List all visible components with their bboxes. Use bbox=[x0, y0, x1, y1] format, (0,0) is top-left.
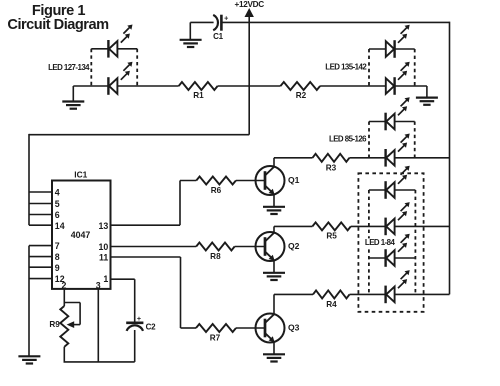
ground below Q3 bbox=[263, 354, 285, 361]
svg-text:LED 1-84: LED 1-84 bbox=[365, 238, 396, 247]
pin 5 bbox=[29, 199, 60, 209]
svg-text:R2: R2 bbox=[296, 91, 307, 100]
capacitor C2 bbox=[126, 314, 143, 362]
svg-text:8: 8 bbox=[55, 252, 60, 262]
LED D1 of group 1-84 bbox=[386, 166, 410, 199]
wire: LED 85-126 top row bbox=[369, 121, 415, 123]
svg-text:IC1: IC1 bbox=[74, 170, 87, 180]
wire: LED 127-134 top row bbox=[91, 48, 137, 50]
LED D3 of group 1-84 bbox=[386, 234, 410, 267]
svg-text:5: 5 bbox=[55, 199, 60, 209]
LED D-top of group 85-126 bbox=[386, 97, 410, 130]
wire: R7 to Q3 base bbox=[236, 327, 265, 329]
title: Figure 1 / Circuit Diagram bbox=[7, 3, 109, 33]
wire: LED 1-84 row 3 bbox=[369, 257, 416, 259]
LED D-top of group 135-142 bbox=[386, 25, 410, 58]
resistor R8 bbox=[196, 243, 234, 251]
wire: LED 135-142 bottom to ground bbox=[395, 85, 427, 87]
svg-text:R7: R7 bbox=[210, 333, 221, 342]
wire: LED 127-134 bottom row to R1 bbox=[73, 85, 178, 87]
pin 6 bbox=[29, 210, 60, 220]
dashed continuation lines group 1-84 bbox=[369, 190, 416, 294]
svg-text:LED 135-142: LED 135-142 bbox=[325, 62, 367, 71]
resistor R5 bbox=[312, 222, 350, 230]
pin 8 bbox=[29, 252, 60, 262]
ground at LED 135-142 bbox=[416, 86, 438, 105]
wire: left bus A (pins 4,5,6,14) bbox=[28, 134, 30, 225]
LED D-bottom of group 127-134 bbox=[108, 62, 132, 95]
pin 2 and stub bbox=[61, 280, 66, 306]
pin 10 and wire to R8 bbox=[99, 242, 197, 252]
LED D-bottom of group 85-126 bbox=[386, 134, 410, 167]
LED group 1-84 label bbox=[363, 238, 396, 247]
resistor R6 bbox=[196, 177, 236, 185]
LED D4 of group 1-84 bbox=[386, 270, 410, 303]
svg-text:1: 1 bbox=[103, 274, 108, 284]
LED D-bottom of group 135-142 bbox=[386, 62, 410, 95]
wire: Q1 collector to R3 bbox=[274, 157, 313, 159]
pin 13 and wire to R6 bbox=[99, 181, 197, 231]
pin 1 and wire to C2 bbox=[103, 274, 134, 323]
svg-text:R1: R1 bbox=[193, 91, 204, 100]
svg-text:3: 3 bbox=[96, 280, 101, 290]
svg-text:+: + bbox=[137, 314, 141, 323]
pin 9 bbox=[29, 263, 60, 273]
wire: right supply rail bbox=[449, 22, 451, 295]
svg-text:Q3: Q3 bbox=[288, 323, 300, 333]
LED D2 of group 1-84 bbox=[386, 202, 410, 235]
svg-text:14: 14 bbox=[55, 221, 65, 231]
svg-text:7: 7 bbox=[55, 241, 60, 251]
dashed continuation lines group 135-142 bbox=[369, 49, 415, 86]
svg-text:R6: R6 bbox=[211, 186, 222, 195]
svg-text:9: 9 bbox=[55, 263, 60, 273]
pin 14 bbox=[29, 221, 65, 231]
svg-text:R8: R8 bbox=[210, 252, 221, 261]
wire: top rail left segment (ground to C1) bbox=[190, 21, 213, 23]
wire: Q2 collector to R5 bbox=[274, 225, 312, 227]
wire: bottom rail bbox=[64, 361, 135, 363]
transistor Q1 bbox=[256, 158, 285, 207]
svg-text:+: + bbox=[224, 13, 228, 22]
resistor R4 bbox=[313, 290, 350, 298]
capacitor C1 bbox=[213, 13, 228, 30]
svg-text:4047: 4047 bbox=[71, 230, 91, 240]
dashed continuation lines group 85-126 bbox=[369, 122, 415, 158]
svg-text:6: 6 bbox=[55, 210, 60, 220]
svg-text:4: 4 bbox=[55, 188, 60, 198]
wire: R9 bottom to rail bbox=[63, 347, 65, 362]
wire: R8 to Q2 base bbox=[235, 246, 265, 248]
wire: left bus B (pins 7,8,9,12 to ground) bbox=[28, 246, 30, 357]
svg-text:2: 2 bbox=[61, 280, 66, 290]
resistor R7 bbox=[196, 324, 236, 332]
wire: LED 1-84 row 2 (R5 to right rail) bbox=[351, 225, 450, 227]
wire: LED 1-84 row 4 (R4 to right rail) bbox=[350, 293, 450, 295]
wire: R3 to right rail through LED 85-126 bbox=[349, 157, 449, 159]
wire: R6 to Q1 base bbox=[236, 180, 265, 182]
wire: LED 135-142 top row bbox=[369, 48, 415, 50]
pin 7 bbox=[29, 241, 60, 251]
ground at LED 127-134 bbox=[62, 86, 84, 109]
svg-text:Q1: Q1 bbox=[288, 175, 300, 185]
svg-text:10: 10 bbox=[99, 242, 109, 252]
svg-text:13: 13 bbox=[99, 221, 109, 231]
svg-text:R5: R5 bbox=[326, 232, 337, 241]
transistor Q3 bbox=[256, 294, 285, 354]
+12VDC arrow bbox=[245, 8, 254, 135]
ground below Q1 bbox=[263, 207, 285, 214]
pin 3 and stub bbox=[96, 280, 101, 362]
ground at C1 bbox=[180, 22, 202, 47]
svg-text:+12VDC: +12VDC bbox=[235, 0, 265, 9]
svg-text:Circuit Diagram: Circuit Diagram bbox=[7, 17, 109, 33]
svg-text:C2: C2 bbox=[146, 322, 157, 331]
wire: horizontal feed to IC supply bus bbox=[29, 134, 249, 136]
wire: LED 1-84 row 1 bbox=[369, 189, 416, 191]
svg-text:LED 85-126: LED 85-126 bbox=[329, 134, 367, 143]
svg-text:R3: R3 bbox=[326, 163, 337, 172]
resistor R2 bbox=[281, 82, 321, 90]
svg-text:R9: R9 bbox=[49, 320, 60, 329]
svg-text:LED 127-134: LED 127-134 bbox=[48, 63, 90, 72]
LED D-top of group 127-134 bbox=[108, 25, 132, 58]
wire: Q3 collector to R4 bbox=[274, 293, 313, 295]
dashed continuation lines group 127-134 bbox=[91, 49, 137, 86]
svg-text:R4: R4 bbox=[326, 300, 337, 309]
pin 4 bbox=[29, 188, 60, 198]
wire: R2 to LED 135-142 bbox=[320, 85, 386, 87]
pin 11 and wire to R7 bbox=[99, 253, 196, 328]
resistor R1 bbox=[179, 82, 218, 90]
svg-text:Q2: Q2 bbox=[288, 241, 300, 251]
wire: R1 to R2 across +12V feed bbox=[218, 85, 281, 87]
svg-text:11: 11 bbox=[99, 253, 108, 263]
potentiometer R9 bbox=[60, 303, 80, 347]
ground at bottom left bbox=[18, 356, 40, 363]
pin 12 bbox=[29, 274, 65, 284]
svg-text:C1: C1 bbox=[213, 32, 224, 41]
wire: top rail right segment (C1 to right rail) bbox=[222, 21, 450, 23]
IC U1 4047 body bbox=[52, 181, 111, 289]
dashed box around LED group 1-84 bbox=[358, 173, 423, 311]
transistor Q2 bbox=[256, 226, 285, 272]
ground below Q2 bbox=[263, 273, 285, 280]
resistor R3 bbox=[313, 154, 350, 162]
